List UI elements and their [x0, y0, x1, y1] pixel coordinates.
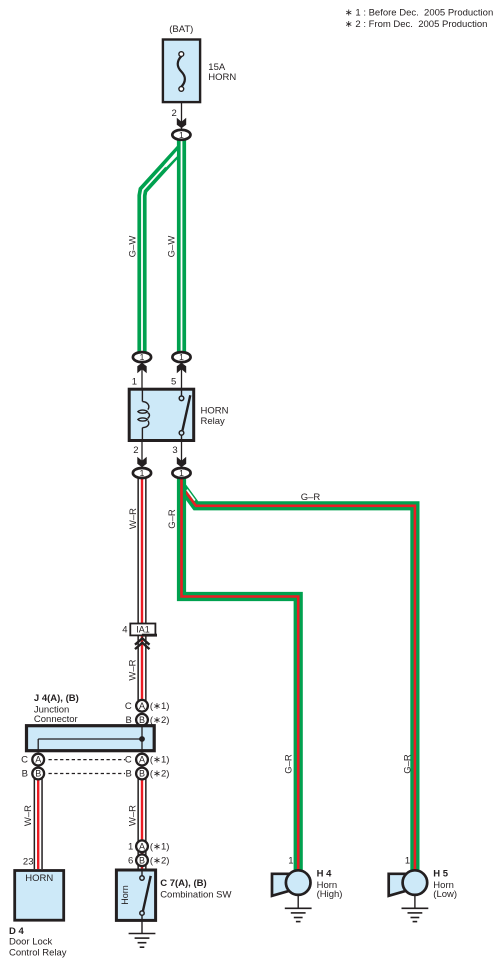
svg-text:H 4: H 4	[317, 868, 333, 879]
wire G-W main vertical (fuse connector to relay pin 5 connector)	[177, 135, 186, 352]
node C/A below junction connector right	[136, 754, 148, 766]
dashed link row B	[49, 773, 126, 775]
wire relay pin2 stub	[141, 441, 143, 468]
svg-text:23: 23	[23, 857, 34, 868]
fuse 15A HORN (BAT)	[163, 40, 200, 103]
relay switch	[179, 389, 190, 441]
ground below combination SW	[129, 934, 156, 948]
label 1 and (*1)	[128, 841, 169, 852]
svg-text:B: B	[125, 769, 131, 780]
svg-text:1: 1	[128, 841, 133, 852]
wire relay pin3 stub	[181, 441, 183, 468]
svg-text:1: 1	[288, 856, 293, 867]
node 6/B above combination SW	[136, 854, 148, 866]
svg-text:B: B	[139, 855, 145, 865]
wire relay pin5 stub	[181, 362, 183, 388]
chevron junction below IA1	[135, 638, 150, 649]
dashed link row C	[49, 759, 126, 761]
footnote *1 *2 production notes	[345, 8, 493, 31]
svg-text:D 4: D 4	[9, 926, 25, 937]
connector node 1 above relay pin 5	[172, 352, 190, 362]
pin 4 label of IA1	[122, 625, 127, 636]
svg-text:W–R: W–R	[128, 805, 139, 826]
label 15A HORN	[208, 62, 236, 83]
wire W-R junction connector left to D4	[34, 774, 43, 869]
svg-text:G–R: G–R	[403, 754, 414, 774]
node B/B above junction connector	[136, 714, 148, 726]
svg-text:W–R: W–R	[23, 805, 34, 826]
svg-text:H 5: H 5	[433, 868, 449, 879]
svg-text:(Low): (Low)	[433, 889, 457, 900]
svg-text:HORN: HORN	[25, 873, 53, 884]
svg-text:C: C	[125, 755, 132, 766]
svg-text:J 4(A), (B): J 4(A), (B)	[34, 693, 79, 704]
node C/A above junction connector	[136, 700, 148, 712]
wire W-R junction connector right to combination SW	[137, 774, 146, 869]
svg-text:2: 2	[133, 445, 138, 456]
svg-text:∗ 2 : From Dec. 2005 Producti: ∗ 2 : From Dec. 2005 Production	[345, 19, 488, 30]
wire G-R branch to horn H5	[183, 488, 415, 877]
svg-text:IA1: IA1	[136, 625, 150, 635]
svg-text:B: B	[139, 769, 145, 779]
svg-text:Combination SW: Combination SW	[160, 890, 231, 901]
svg-text:B: B	[139, 715, 145, 725]
svg-text:C 7(A), (B): C 7(A), (B)	[160, 878, 206, 889]
combination switch contacts	[140, 869, 151, 934]
label G-R horizontal top	[301, 492, 321, 503]
wire G-R relay pin 3 to horn H4 (vertical, corner right)	[182, 473, 299, 876]
svg-text:(∗1): (∗1)	[150, 701, 170, 712]
svg-text:1: 1	[179, 130, 184, 140]
node B/B below junction connector right	[136, 768, 148, 780]
svg-text:G–R: G–R	[301, 492, 321, 503]
svg-text:W–R: W–R	[128, 659, 139, 680]
horn H5 symbol	[389, 870, 428, 896]
svg-text:Door Lock: Door Lock	[9, 937, 53, 948]
junction connector internal wiring	[38, 724, 142, 752]
arrow up at relay pin 5	[177, 363, 186, 374]
svg-text:Control Relay: Control Relay	[9, 947, 67, 958]
wire relay pin1 stub	[141, 362, 143, 388]
connector IA1	[130, 624, 157, 637]
svg-text:A: A	[139, 755, 145, 765]
label G-R below pin 3	[167, 509, 178, 529]
label (BAT)	[169, 24, 193, 35]
label W-R lower right	[128, 805, 139, 826]
junction dot	[139, 736, 145, 742]
svg-text:3: 3	[172, 445, 177, 456]
label HORN Relay	[201, 406, 229, 427]
label D 4 Door Lock Control Relay	[9, 926, 67, 959]
svg-text:(∗2): (∗2)	[150, 769, 170, 780]
node 1/A above combination SW	[136, 840, 148, 852]
svg-text:G–R: G–R	[284, 754, 295, 774]
label C and (*1)	[125, 701, 170, 712]
wire fork separator at relay pin 3	[187, 490, 195, 501]
svg-text:5: 5	[171, 377, 176, 388]
label G-W right	[167, 236, 178, 258]
node C/A below junction connector left	[32, 754, 44, 766]
svg-text:1: 1	[132, 377, 137, 388]
svg-text:A: A	[35, 755, 41, 765]
label W-R lower left	[23, 805, 34, 826]
svg-text:G–W: G–W	[167, 236, 178, 258]
pin 1 label	[132, 377, 137, 388]
svg-text:2: 2	[172, 108, 177, 119]
pin 2 label	[133, 445, 138, 456]
label 6 and (*2)	[128, 855, 169, 866]
pin 1 label of H4	[288, 856, 293, 867]
svg-text:G–R: G–R	[167, 509, 178, 529]
ground below H4	[285, 896, 312, 922]
label G-R column H5	[403, 754, 414, 774]
label (*1) row C	[150, 755, 170, 766]
connector node 1 below relay pin 3	[172, 468, 190, 478]
svg-text:Relay: Relay	[201, 416, 226, 427]
label H 5 Horn (Low)	[433, 868, 457, 900]
wire fuse to node 2/1 (thin black from fuse bottom to connector)	[181, 91, 183, 129]
svg-text:Horn: Horn	[120, 885, 130, 905]
svg-text:A: A	[139, 841, 145, 851]
svg-text:A: A	[139, 701, 145, 711]
label G-W left	[128, 236, 139, 258]
svg-text:1: 1	[179, 352, 184, 362]
combination switch C7 box	[116, 870, 155, 920]
svg-text:C: C	[21, 755, 28, 766]
arrow down at relay pin 2	[137, 457, 146, 468]
label C right	[125, 755, 132, 766]
label B left	[22, 769, 28, 780]
label H 4 Horn (High)	[317, 868, 343, 900]
label B and (*2)	[125, 715, 169, 726]
horn H4 symbol	[272, 870, 311, 896]
svg-text:G–W: G–W	[128, 236, 139, 258]
svg-text:1: 1	[179, 468, 184, 478]
pin 5 label	[171, 377, 176, 388]
label C 7(A), (B) Combination SW	[160, 878, 231, 901]
label J 4(A), (B) Junction Connector	[34, 693, 79, 725]
wire G-W branch (fuse connector to relay pin 1 connector)	[142, 148, 181, 352]
label G-R column H4	[284, 754, 295, 774]
svg-text:Connector: Connector	[34, 714, 78, 725]
relay box U: HORN Relay	[129, 389, 194, 440]
svg-text:1: 1	[140, 352, 145, 362]
svg-text:(∗1): (∗1)	[150, 755, 170, 766]
svg-text:(BAT): (BAT)	[169, 24, 193, 35]
label Horn inside combination SW	[120, 885, 130, 905]
pin 2 label of fuse	[172, 108, 177, 119]
svg-text:HORN: HORN	[208, 72, 236, 83]
pin 1 label of H5	[405, 856, 410, 867]
svg-text:B: B	[22, 769, 28, 780]
connector node 1 above relay pin 1	[133, 352, 151, 362]
ground below H5	[402, 896, 429, 922]
arrow down into connector 1 below fuse	[177, 118, 186, 129]
svg-text:C: C	[125, 701, 132, 712]
arrow up at relay pin 1	[137, 363, 146, 374]
relay coil	[138, 389, 150, 441]
svg-text:W–R: W–R	[128, 508, 139, 529]
pin 3 label	[172, 445, 177, 456]
svg-text:(∗2): (∗2)	[150, 855, 170, 866]
connector node 1 below relay pin 2	[133, 468, 151, 478]
svg-text:1: 1	[140, 468, 145, 478]
wire fork separator at fuse connector	[164, 151, 177, 168]
connector node 1 below fuse	[172, 130, 190, 140]
svg-text:∗ 1 : Before Dec. 2005 Produc: ∗ 1 : Before Dec. 2005 Production	[345, 8, 493, 19]
wire W-R relay pin 2 to IA1	[137, 473, 146, 624]
label (*2) row B	[150, 769, 170, 780]
svg-text:4: 4	[122, 625, 127, 636]
pin 23 label of D4	[23, 857, 34, 868]
relay D4 Door Lock Control Relay box	[15, 871, 64, 921]
wire W-R IA1 to junction connector circle A	[137, 636, 146, 706]
svg-text:B: B	[35, 769, 41, 779]
label W-R below pin 2	[128, 508, 139, 529]
label W-R below IA1	[128, 659, 139, 680]
svg-text:(∗1): (∗1)	[150, 841, 170, 852]
svg-text:(High): (High)	[317, 889, 343, 900]
label B right	[125, 769, 131, 780]
svg-text:1: 1	[405, 856, 410, 867]
label C left	[21, 755, 28, 766]
node B/B below junction connector left	[32, 768, 44, 780]
svg-text:6: 6	[128, 855, 133, 866]
junction connector J4 box	[27, 726, 155, 751]
arrow down at relay pin 3	[177, 457, 186, 468]
